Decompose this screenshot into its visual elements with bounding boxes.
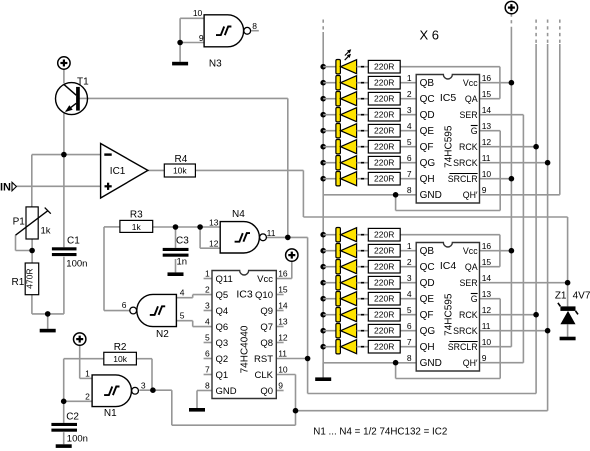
svg-text:14: 14 [278,301,288,311]
svg-text:QH: QH [420,342,435,353]
svg-text:Q7: Q7 [260,322,273,333]
svg-text:100n: 100n [66,259,87,270]
svg-text:C2: C2 [66,412,79,423]
svg-text:2: 2 [205,285,210,295]
svg-text:15: 15 [278,285,288,295]
svg-text:Vcc: Vcc [463,78,478,88]
svg-text:6: 6 [205,349,210,359]
svg-text:220R: 220R [374,326,394,336]
svg-text:Q8: Q8 [260,338,273,349]
svg-text:SRCLR: SRCLR [448,174,478,184]
svg-text:3: 3 [407,273,412,283]
svg-text:13: 13 [209,217,219,227]
svg-text:Q5: Q5 [216,290,229,301]
svg-text:3: 3 [205,301,210,311]
svg-text:220R: 220R [374,230,394,240]
svg-text:G: G [471,294,478,304]
svg-text:1: 1 [205,269,210,279]
svg-text:5: 5 [205,333,210,343]
svg-text:C3: C3 [176,236,189,247]
svg-text:T1: T1 [77,77,89,88]
svg-text:220R: 220R [374,142,394,152]
svg-text:1k: 1k [41,226,51,237]
svg-text:1: 1 [407,73,412,83]
svg-text:R4: R4 [175,154,188,165]
svg-text:220R: 220R [374,62,394,72]
svg-text:10: 10 [482,337,492,347]
svg-text:10: 10 [278,365,288,375]
svg-text:IC1: IC1 [110,166,126,177]
svg-text:N2: N2 [156,329,169,340]
svg-text:N1 ... N4 = 1/2 74HC132 = IC2: N1 ... N4 = 1/2 74HC132 = IC2 [313,427,447,438]
svg-text:1: 1 [85,368,90,378]
svg-text:16: 16 [482,241,492,251]
svg-text:1n: 1n [177,256,188,267]
svg-text:8: 8 [407,353,412,363]
svg-text:QG: QG [420,158,436,169]
svg-text:6: 6 [407,321,412,331]
svg-text:6: 6 [122,300,127,310]
svg-text:Vcc: Vcc [257,274,273,285]
svg-text:5: 5 [407,137,412,147]
svg-text:1k: 1k [132,222,142,232]
svg-text:Q2: Q2 [216,354,229,365]
svg-text:QB: QB [420,246,435,257]
svg-text:8: 8 [407,185,412,195]
svg-text:P1: P1 [13,217,26,228]
svg-text:GND: GND [216,386,237,397]
svg-text:13: 13 [482,289,492,299]
svg-text:5: 5 [180,311,185,321]
svg-text:N4: N4 [232,209,245,220]
svg-text:16: 16 [482,73,492,83]
svg-text:Q6: Q6 [216,322,229,333]
svg-text:QH: QH [420,174,435,185]
svg-text:10k: 10k [113,354,127,364]
svg-text:4: 4 [407,121,412,131]
svg-text:9: 9 [482,185,487,195]
svg-text:220R: 220R [374,342,394,352]
svg-text:11: 11 [482,153,491,163]
svg-text:10: 10 [193,8,203,18]
svg-text:QD: QD [420,278,435,289]
svg-text:220R: 220R [374,174,394,184]
svg-text:7: 7 [407,337,412,347]
svg-text:3: 3 [407,105,412,115]
svg-text:3: 3 [141,380,146,390]
svg-text:9: 9 [199,33,204,43]
svg-text:R3: R3 [130,210,143,221]
svg-text:X 6: X 6 [420,28,440,43]
svg-text:G: G [471,126,478,136]
svg-text:220R: 220R [374,246,394,256]
svg-text:QA: QA [465,94,478,104]
svg-text:7: 7 [205,365,210,375]
svg-text:GND: GND [420,190,442,201]
svg-text:GND: GND [420,358,442,369]
svg-text:RCK: RCK [459,310,478,320]
svg-text:8: 8 [252,21,257,31]
svg-text:11: 11 [278,349,287,359]
svg-text:Q1: Q1 [216,370,229,381]
svg-text:SER: SER [460,110,478,120]
svg-text:QE: QE [420,126,435,137]
svg-text:220R: 220R [374,78,394,88]
svg-text:8: 8 [205,381,210,391]
svg-text:SRCK: SRCK [453,158,478,168]
svg-text:QC: QC [420,262,435,273]
svg-text:12: 12 [482,305,492,315]
svg-text:470R: 470R [24,269,34,289]
svg-text:13: 13 [482,121,492,131]
svg-text:R1: R1 [12,277,25,288]
svg-text:9: 9 [482,353,487,363]
svg-text:QC: QC [420,94,435,105]
svg-text:74HC595: 74HC595 [444,293,455,336]
svg-text:220R: 220R [374,294,394,304]
svg-text:2: 2 [407,89,412,99]
svg-text:6: 6 [407,153,412,163]
svg-text:220R: 220R [374,110,394,120]
svg-text:15: 15 [482,89,492,99]
svg-text:220R: 220R [374,126,394,136]
svg-text:RCK: RCK [459,142,478,152]
svg-text:RST: RST [254,354,273,365]
svg-text:Q0: Q0 [260,386,273,397]
svg-text:15: 15 [482,257,492,267]
svg-text:N3: N3 [209,58,222,69]
svg-text:7: 7 [407,169,412,179]
svg-text:4: 4 [407,289,412,299]
svg-text:QG: QG [420,326,436,337]
svg-text:10: 10 [482,169,492,179]
svg-text:Vcc: Vcc [463,246,478,256]
svg-text:Q9: Q9 [260,306,273,317]
svg-text:CLK: CLK [255,370,274,381]
svg-text:220R: 220R [374,278,394,288]
svg-text:11: 11 [482,321,491,331]
svg-text:220R: 220R [374,262,394,272]
svg-text:220R: 220R [374,158,394,168]
svg-text:9: 9 [278,381,283,391]
svg-text:12: 12 [278,333,288,343]
svg-text:5: 5 [407,305,412,315]
svg-text:QF: QF [420,142,434,153]
svg-text:2: 2 [407,257,412,267]
svg-text:R2: R2 [114,342,127,353]
svg-text:74HC595: 74HC595 [444,125,455,168]
svg-text:C1: C1 [67,236,80,247]
svg-text:11: 11 [267,228,276,238]
svg-text:QE: QE [420,294,435,305]
svg-text:4V7: 4V7 [573,291,590,302]
svg-text:Q11: Q11 [216,274,233,285]
svg-text:12: 12 [209,238,219,248]
svg-text:QH′: QH′ [463,358,478,368]
svg-text:SER: SER [460,278,478,288]
svg-text:100n: 100n [67,434,88,445]
svg-text:220R: 220R [374,310,394,320]
svg-text:QF: QF [420,310,434,321]
svg-text:4: 4 [205,317,210,327]
svg-text:10k: 10k [173,165,187,175]
svg-text:16: 16 [278,269,288,279]
svg-text:QB: QB [420,78,435,89]
svg-text:IC4: IC4 [440,260,457,272]
svg-text:14: 14 [482,273,492,283]
svg-text:220R: 220R [374,94,394,104]
svg-text:IC3: IC3 [236,289,253,301]
svg-text:IC5: IC5 [440,92,457,104]
svg-text:4: 4 [180,287,185,297]
svg-text:QA: QA [465,262,478,272]
svg-text:14: 14 [482,105,492,115]
svg-text:Q3: Q3 [216,338,229,349]
svg-text:Q4: Q4 [216,306,229,317]
svg-text:SRCLR: SRCLR [448,342,478,352]
svg-text:SRCK: SRCK [453,326,478,336]
svg-text:74HC4040: 74HC4040 [240,325,251,373]
svg-text:12: 12 [482,137,492,147]
svg-text:QH′: QH′ [463,190,478,200]
svg-text:Z1: Z1 [555,291,567,302]
svg-text:QD: QD [420,110,435,121]
svg-text:2: 2 [85,391,90,401]
svg-text:1: 1 [407,241,412,251]
svg-text:N1: N1 [104,408,117,419]
svg-text:IN: IN [0,182,11,194]
svg-text:Q10: Q10 [255,290,273,301]
svg-text:13: 13 [278,317,288,327]
